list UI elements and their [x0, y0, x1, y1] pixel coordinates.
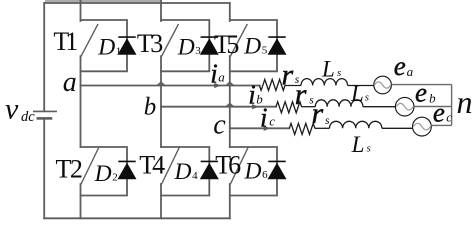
- svg-text:T5: T5: [214, 30, 238, 59]
- svg-text:6: 6: [262, 169, 268, 181]
- svg-text:c: c: [269, 113, 275, 128]
- svg-text:L: L: [351, 132, 365, 157]
- svg-text:i: i: [248, 79, 256, 109]
- svg-text:T4: T4: [139, 151, 165, 180]
- svg-text:b: b: [144, 94, 157, 121]
- svg-text:i: i: [260, 102, 268, 132]
- svg-text:3: 3: [195, 45, 201, 57]
- svg-text:a: a: [218, 69, 225, 84]
- svg-text:D: D: [177, 34, 195, 60]
- svg-text:D: D: [174, 159, 192, 185]
- svg-text:s: s: [367, 142, 371, 154]
- svg-text:s: s: [337, 67, 341, 79]
- svg-text:L: L: [350, 81, 364, 106]
- svg-text:r: r: [282, 58, 294, 91]
- svg-text:s: s: [365, 91, 369, 103]
- svg-text:e: e: [394, 51, 406, 81]
- svg-text:T3: T3: [137, 29, 162, 58]
- svg-text:4: 4: [192, 170, 198, 182]
- svg-text:b: b: [256, 92, 263, 107]
- svg-text:D: D: [94, 161, 112, 187]
- svg-text:a: a: [63, 67, 77, 98]
- svg-text:a: a: [407, 64, 414, 79]
- svg-text:L: L: [321, 57, 335, 82]
- svg-text:T2: T2: [56, 155, 82, 184]
- svg-text:s: s: [309, 95, 314, 107]
- svg-text:T1: T1: [53, 27, 77, 56]
- svg-text:s: s: [325, 115, 330, 127]
- svg-text:T6: T6: [215, 151, 241, 180]
- svg-text:dc: dc: [21, 109, 35, 125]
- svg-text:5: 5: [262, 44, 268, 56]
- svg-text:D: D: [243, 34, 261, 60]
- svg-text:e: e: [415, 77, 427, 107]
- svg-text:D: D: [97, 35, 115, 61]
- svg-text:1: 1: [116, 45, 122, 57]
- svg-text:D: D: [244, 158, 262, 184]
- svg-text:i: i: [210, 59, 218, 89]
- svg-text:s: s: [295, 74, 300, 86]
- svg-text:c: c: [213, 110, 226, 141]
- svg-text:v: v: [5, 93, 19, 126]
- svg-text:n: n: [457, 84, 473, 120]
- svg-text:2: 2: [112, 172, 118, 184]
- svg-text:b: b: [429, 90, 436, 105]
- svg-text:c: c: [446, 109, 452, 124]
